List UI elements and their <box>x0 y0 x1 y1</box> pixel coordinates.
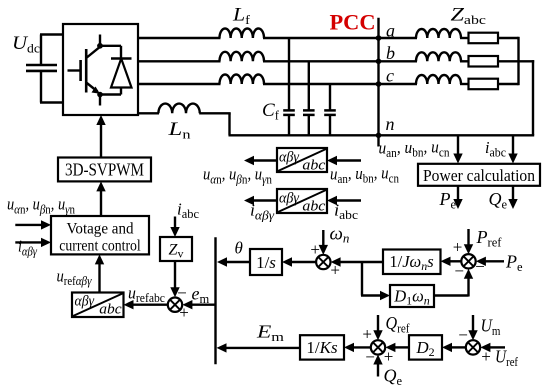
svg-text:+: + <box>453 238 463 257</box>
arrow wsum to 1/s <box>282 257 316 266</box>
sign plus Sq bottom-right <box>384 347 394 366</box>
arrow u into control <box>15 220 51 229</box>
wire dc+ <box>40 35 63 66</box>
arrow u to power calc <box>453 137 462 164</box>
label wn <box>330 224 350 246</box>
wire em bus <box>214 237 216 364</box>
block voltage current control <box>51 216 149 255</box>
svg-text:abc: abc <box>302 199 325 215</box>
arrow iabc in <box>327 196 361 205</box>
arrow wn into Sw <box>319 230 328 255</box>
svg-text:+: + <box>362 324 372 343</box>
arrow svpwm to inverter <box>96 115 105 159</box>
wire phase c <box>138 83 221 85</box>
wire a tail <box>498 37 519 39</box>
svg-text:−: − <box>458 325 468 344</box>
svg-text:−: − <box>454 261 464 280</box>
arrow Zv to S1 <box>170 261 179 297</box>
transistor Q1 (IGBT) <box>68 35 103 94</box>
resistor Rb <box>469 56 499 67</box>
label urefabc <box>128 284 165 306</box>
svg-text:−: − <box>365 348 375 367</box>
wire cap column a low <box>288 115 290 135</box>
block abg-to-abc (uref) <box>72 293 124 318</box>
wire cap column b <box>308 61 310 110</box>
wire b after PCC <box>379 60 418 62</box>
arrow Em to bus <box>217 343 301 352</box>
arrow iabg out <box>244 196 277 205</box>
resistor Rc <box>469 79 499 90</box>
inductor Ln <box>158 104 199 114</box>
arrow Pe out <box>453 186 462 209</box>
label i abc (mid) <box>334 201 358 223</box>
sign plus Su <box>481 347 491 366</box>
svg-text:Power calculation: Power calculation <box>423 166 535 185</box>
summer Sq <box>371 340 385 354</box>
label uan ubn ucn (PCC) <box>379 138 451 160</box>
label Qe (below) <box>489 189 508 212</box>
capacitor Cdc <box>26 65 57 71</box>
wire Jw branch down <box>361 262 363 296</box>
sign plus Sp top <box>453 238 463 257</box>
arrow em into S1 <box>182 300 215 309</box>
svg-text:3D-SVPWM: 3D-SVPWM <box>65 160 144 180</box>
sign plus Sw top <box>310 240 320 259</box>
block 1/Jwns <box>383 250 441 275</box>
label Ln <box>167 119 191 142</box>
label Udc <box>12 33 40 56</box>
wire a to Ra <box>460 37 470 39</box>
sign minus S1 <box>177 283 187 302</box>
arrow Qe out <box>508 186 517 209</box>
svg-text:abc: abc <box>302 158 325 174</box>
wire neutral from inverter <box>138 112 159 114</box>
label i abg (mid) <box>250 201 275 223</box>
arrow D1wn up to Sp <box>464 269 473 297</box>
arrow i to power calc <box>508 137 517 164</box>
arrow uref to control <box>95 254 104 292</box>
sign minus Sp bottom-left <box>454 261 464 280</box>
svg-text:αβγ: αβγ <box>279 190 300 206</box>
wire b tail <box>498 60 534 62</box>
wire neutral rail n <box>229 134 535 136</box>
node inverter bottom <box>97 92 103 106</box>
arrow Sq to 1/Ks <box>344 343 371 352</box>
arrow D2 to Sq <box>385 343 409 352</box>
label theta <box>235 239 243 258</box>
inductor Zabc (phase c) <box>416 75 461 84</box>
label iabc (PCC) <box>485 138 506 160</box>
wire phase b <box>138 60 221 62</box>
label uref-abg <box>57 267 93 289</box>
label Lf <box>232 5 251 28</box>
node b <box>376 59 382 65</box>
label u abg n (mid) <box>203 165 272 187</box>
wire cap column c <box>329 84 331 111</box>
arrow control to svpwm <box>96 181 105 217</box>
label Qref <box>386 313 411 336</box>
label Qe (bottom) <box>384 366 403 389</box>
block 3D-SVPWM <box>58 158 151 182</box>
arrow Um into Su <box>468 315 477 340</box>
arrow Su to D2 <box>442 343 466 352</box>
wire neutral to step <box>199 113 231 135</box>
arrow Sp to Jwns <box>441 257 462 266</box>
wire phase a <box>138 37 221 39</box>
summer Su <box>466 340 480 354</box>
label Pe (below) <box>439 189 457 212</box>
sign plus Sq top <box>362 324 372 343</box>
capacitor Cf (a) <box>283 110 295 115</box>
sign minus Sp right <box>475 257 485 276</box>
arrow urefabc to transform <box>124 300 168 309</box>
label Um <box>481 316 501 339</box>
wire phase b to PCC <box>263 60 380 62</box>
wire cap column c low <box>329 115 331 135</box>
capacitor Cf (b) <box>303 110 315 115</box>
arrow Pe into Sp <box>476 257 504 266</box>
label a <box>386 21 395 41</box>
label Em <box>256 322 285 345</box>
label Cf <box>262 100 280 123</box>
block abc-to-abg (current) <box>277 189 327 215</box>
svg-text:c: c <box>386 66 394 86</box>
label Pe (right) <box>505 252 523 275</box>
block Zv <box>160 237 192 261</box>
sign minus Sq bottom-left <box>365 348 375 367</box>
arrow branch to D1wn <box>361 291 390 300</box>
wire phase a to PCC <box>263 37 380 39</box>
wire cap column a <box>288 38 290 111</box>
svg-text:−: − <box>177 283 187 302</box>
label Uref <box>495 347 519 370</box>
sign plus S1 <box>179 303 189 322</box>
node inverter top <box>97 43 103 49</box>
svg-text:current control: current control <box>59 238 141 255</box>
wire D1wn to Sp <box>434 294 469 296</box>
inductor Zabc (phase b) <box>416 52 461 61</box>
block 1/Ks <box>300 335 344 359</box>
wire phase c to PCC <box>263 83 380 85</box>
arrow Qe into Sq <box>373 355 382 377</box>
svg-text:1/s: 1/s <box>256 253 276 272</box>
svg-text:1/Jωns: 1/Jωns <box>389 252 433 273</box>
arrow Uref into Su <box>480 343 505 352</box>
arrow uabg out <box>244 156 277 165</box>
inductor Lf (phase c) <box>220 75 265 85</box>
svg-text:1/Ks: 1/Ks <box>306 338 338 357</box>
label Zabc <box>451 5 487 28</box>
wire a after PCC <box>379 37 418 39</box>
node a <box>376 35 382 41</box>
wire b down to n rail <box>532 60 534 135</box>
wire c to Rc <box>460 83 470 85</box>
summer S1 <box>168 298 182 312</box>
svg-text:n: n <box>386 114 395 134</box>
sign plus Sw right <box>330 261 340 280</box>
capacitor Cf (c) <box>324 110 336 115</box>
block abc-to-abg (voltage) <box>277 148 327 174</box>
wire c after PCC <box>379 83 418 85</box>
label u abc (mid) <box>330 164 400 186</box>
summer Sp <box>461 254 475 268</box>
arrow iabc into Zv <box>170 217 179 238</box>
svg-text:αβγ: αβγ <box>279 149 300 165</box>
svg-text:abc: abc <box>99 302 122 318</box>
svg-text:b: b <box>386 43 395 63</box>
wire dc- <box>40 71 63 103</box>
wire c tail <box>498 83 519 85</box>
arrow Jw out to Sw <box>331 257 383 266</box>
inductor Lf (phase b) <box>220 52 265 62</box>
arrow uabc in <box>327 156 361 165</box>
block D1wn <box>390 285 434 308</box>
resistor Ra <box>469 33 499 44</box>
node c <box>376 81 382 87</box>
label Pref <box>475 227 502 250</box>
summer Sw <box>316 255 330 269</box>
label iabc (above Zv) <box>177 200 199 222</box>
label PCC <box>330 10 376 35</box>
svg-text:αβγ: αβγ <box>75 294 95 310</box>
label c <box>386 66 394 86</box>
arrow Qref into Sq <box>373 315 382 340</box>
label u alpha-beta-gamma-n (left) <box>7 195 75 217</box>
sign minus Su <box>458 325 468 344</box>
label em <box>192 284 210 307</box>
wire cap column b low <box>308 115 310 135</box>
inductor Zabc (phase a) <box>416 29 461 38</box>
block power calculation <box>418 164 540 186</box>
label n <box>386 114 395 134</box>
arrow Pref into Sp <box>464 229 473 254</box>
diode D1 <box>100 46 132 95</box>
svg-text:+: + <box>310 240 320 259</box>
inverter U1 box <box>63 24 138 115</box>
svg-text:PCC: PCC <box>330 10 376 35</box>
arrow i into control <box>15 238 51 247</box>
wire b to Rb <box>460 60 470 62</box>
block 1/s <box>250 249 282 275</box>
svg-text:θ: θ <box>235 239 243 258</box>
svg-text:Votage and: Votage and <box>67 221 134 238</box>
wire a-c tie <box>517 37 519 85</box>
wire PCC bus <box>377 18 379 136</box>
label i alpha-beta-gamma (left) <box>18 237 38 259</box>
inductor Lf (phase a) <box>220 29 265 39</box>
label b <box>386 43 395 63</box>
node n <box>376 133 382 147</box>
block D2 <box>409 335 442 359</box>
arrow 1/s to bus <box>217 257 251 266</box>
